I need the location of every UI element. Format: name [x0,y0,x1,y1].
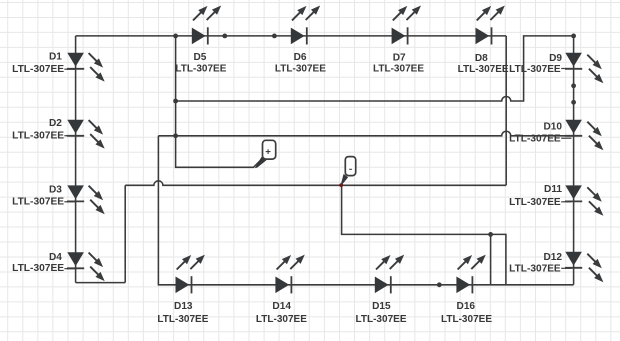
svg-text:LTL-307EE: LTL-307EE [12,131,64,142]
svg-text:LTL-307EE: LTL-307EE [157,314,208,325]
svg-text:D6: D6 [294,52,307,63]
svg-text:LTL-307EE: LTL-307EE [458,64,509,75]
svg-text:LTL-307EE: LTL-307EE [175,64,226,75]
svg-text:D9: D9 [549,53,562,64]
svg-text:D3: D3 [49,184,62,195]
svg-text:D11: D11 [544,184,562,195]
svg-text:D5: D5 [193,52,206,63]
svg-text:LTL-307EE: LTL-307EE [12,263,64,274]
svg-text:LTL-307EE: LTL-307EE [12,197,64,208]
svg-text:D2: D2 [49,118,62,129]
svg-text:LTL-307EE: LTL-307EE [509,133,561,144]
svg-text:LTL-307EE: LTL-307EE [356,314,407,325]
svg-text:D15: D15 [372,301,391,312]
svg-text:LTL-307EE: LTL-307EE [509,264,561,275]
svg-text:D12: D12 [543,252,562,263]
svg-text:LTL-307EE: LTL-307EE [509,197,561,208]
svg-text:LTL-307EE: LTL-307EE [256,314,307,325]
svg-text:LTL-307EE: LTL-307EE [373,64,424,75]
svg-text:D7: D7 [393,52,406,63]
svg-text:D8: D8 [475,53,488,64]
svg-text:D10: D10 [543,122,562,133]
svg-text:LTL-307EE: LTL-307EE [509,64,561,75]
svg-text:D14: D14 [272,301,291,312]
svg-text:LTL-307EE: LTL-307EE [12,64,64,75]
svg-text:LTL-307EE: LTL-307EE [275,64,326,75]
svg-text:D13: D13 [174,301,193,312]
svg-text:D16: D16 [457,301,476,312]
svg-text:D1: D1 [49,52,62,63]
svg-text:LTL-307EE: LTL-307EE [441,314,492,325]
svg-text:D4: D4 [49,252,62,263]
